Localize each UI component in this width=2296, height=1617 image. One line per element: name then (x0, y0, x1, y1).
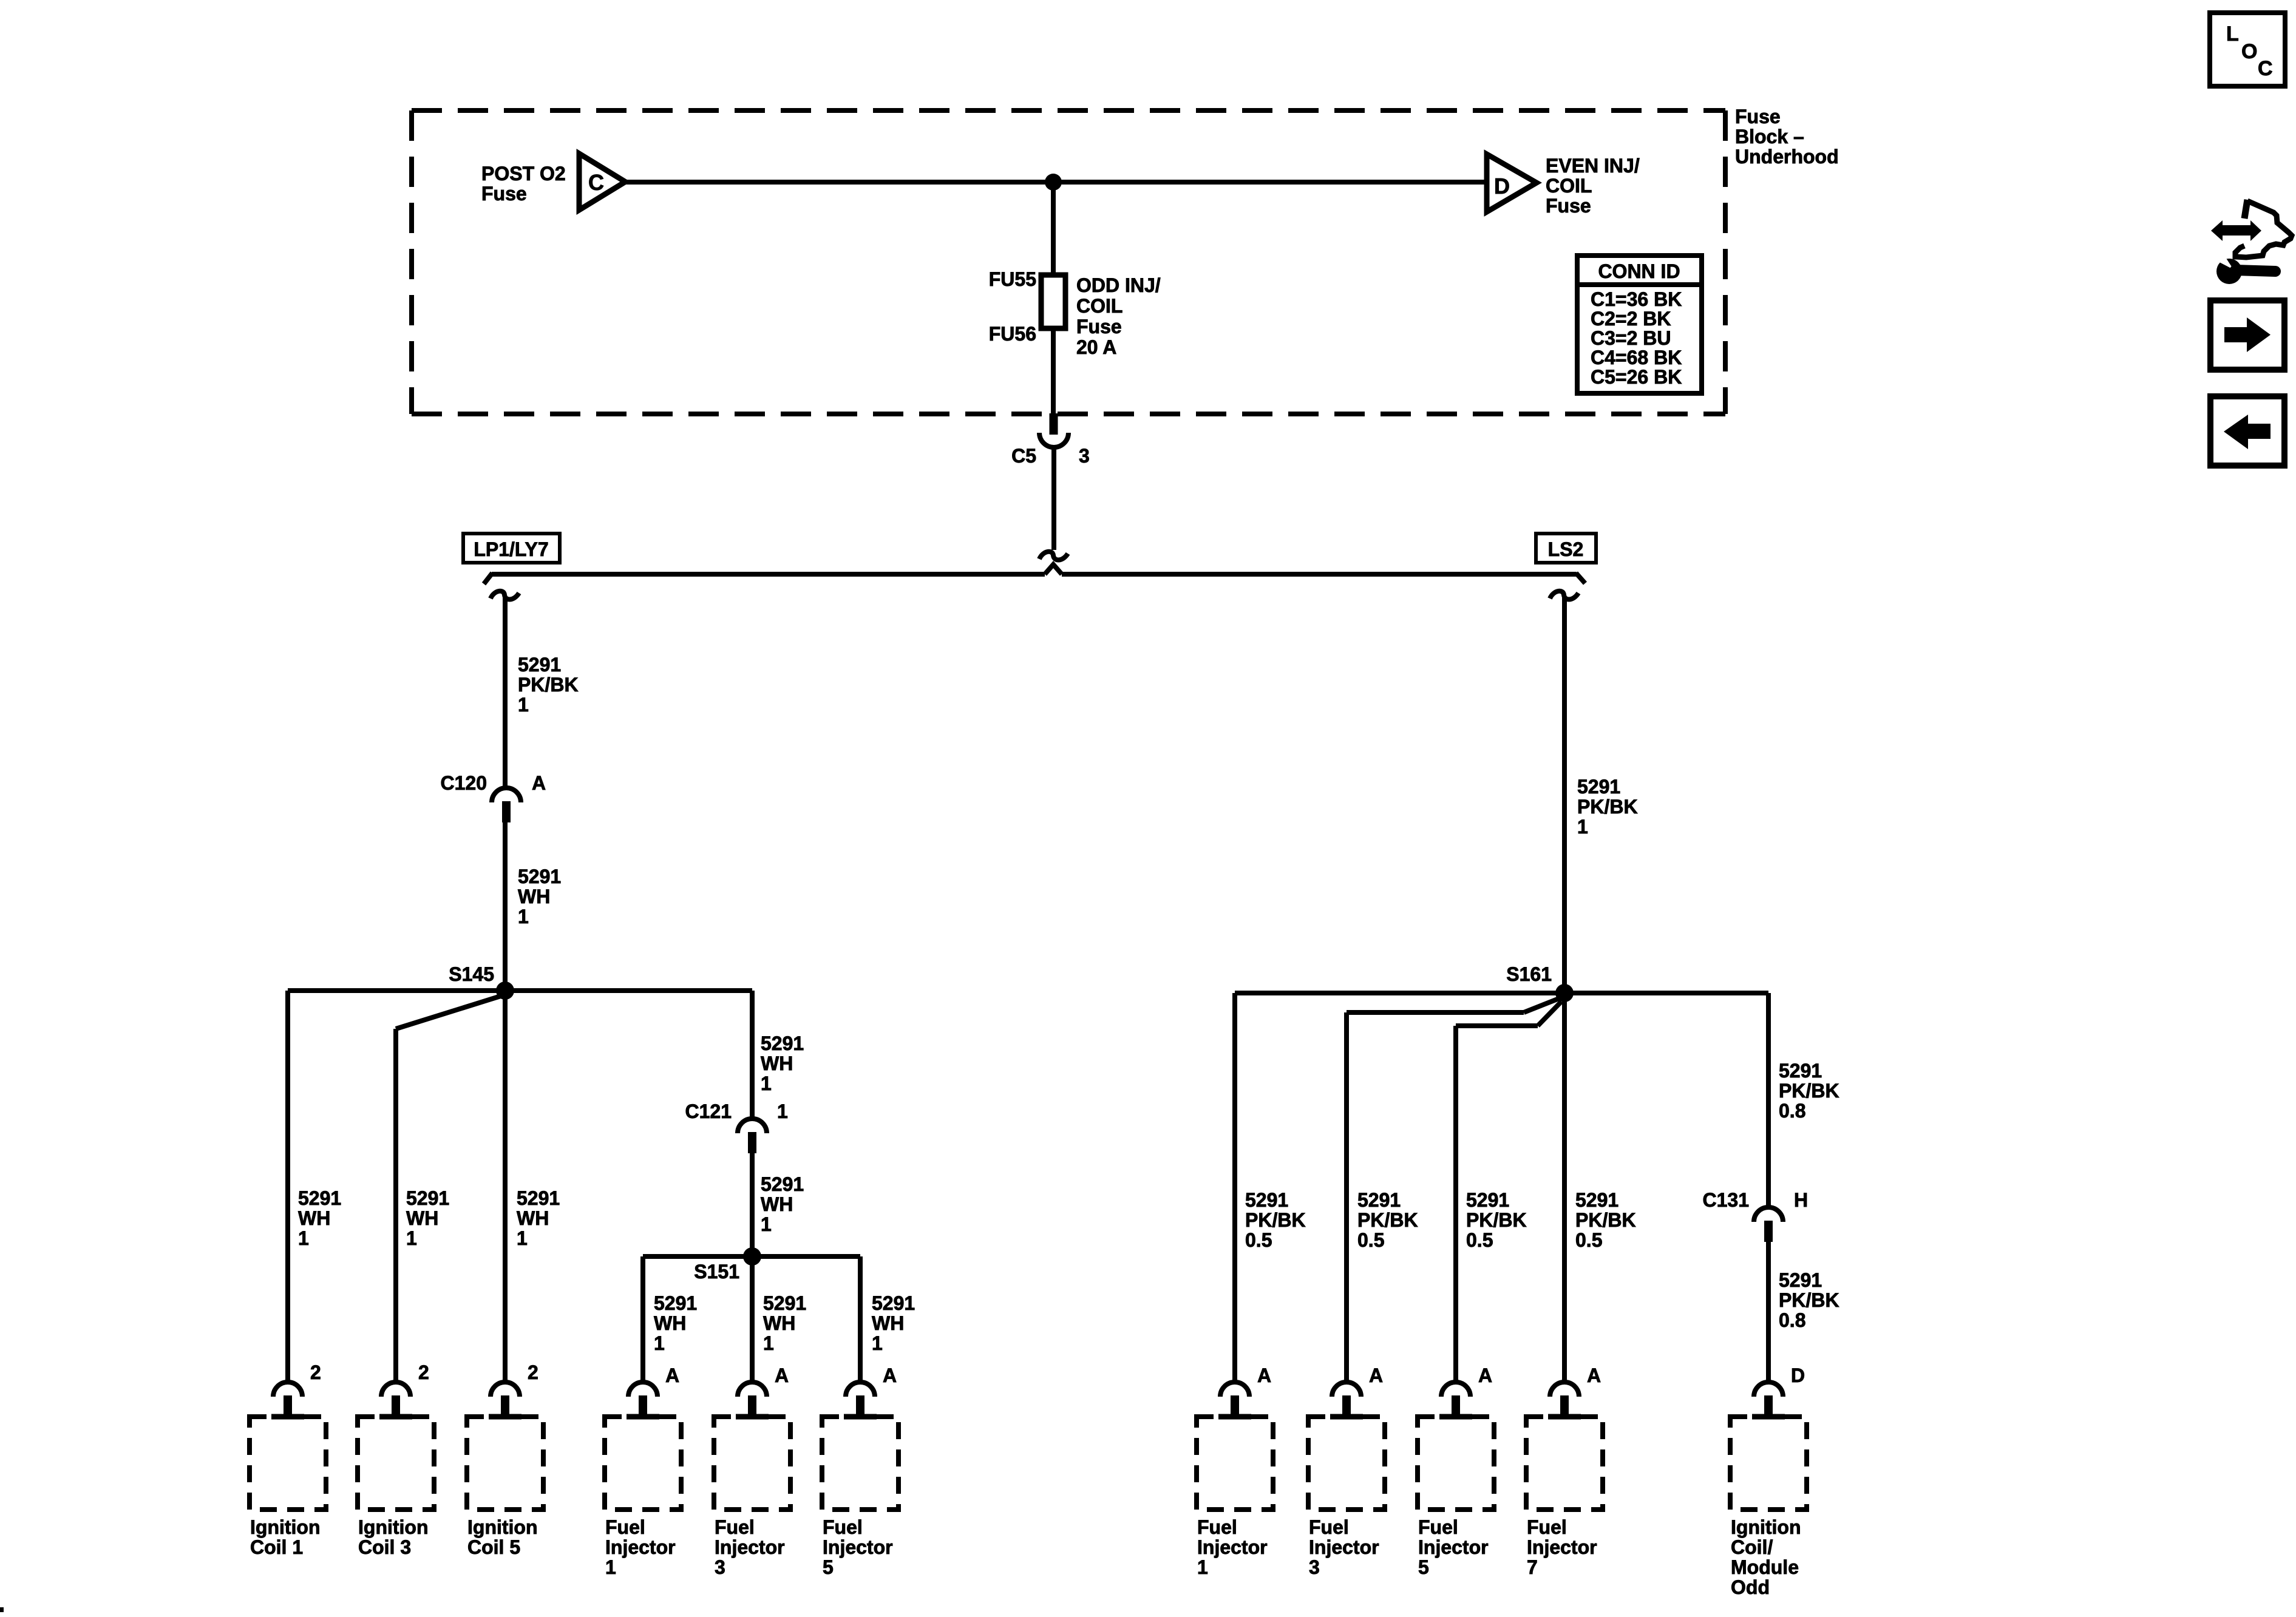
fuse block dashed border (412, 110, 1725, 414)
svg-text:C5: C5 (1011, 445, 1036, 467)
svg-text:C2=2 BK: C2=2 BK (1591, 308, 1671, 330)
svg-text:Module: Module (1731, 1556, 1799, 1578)
svg-text:WH: WH (761, 1053, 793, 1074)
svg-text:5291: 5291 (298, 1187, 341, 1209)
label 5291 PK/BK 0.8 above C131 (1779, 1060, 1839, 1122)
svg-text:5291: 5291 (1779, 1269, 1822, 1291)
svg-text:Fuel: Fuel (1418, 1516, 1458, 1538)
label 5291 PK/BK 0.5 branch 1 (1245, 1189, 1306, 1251)
svg-text:S151: S151 (694, 1261, 739, 1283)
svg-text:Odd: Odd (1731, 1576, 1770, 1598)
label fuel injector 1 left (605, 1516, 676, 1578)
svg-text:WH: WH (872, 1312, 904, 1334)
connector pin 2 at ignition coil 3 (381, 1361, 429, 1416)
svg-text:PK/BK: PK/BK (1466, 1209, 1527, 1231)
svg-text:WH: WH (406, 1207, 438, 1229)
fuel injector 7 right box (1526, 1417, 1603, 1510)
svg-text:PK/BK: PK/BK (1357, 1209, 1418, 1231)
svg-text:Ignition: Ignition (1731, 1516, 1801, 1538)
wire S145 to C121 (750, 991, 755, 1119)
label 5291 WH 1 below C121 (761, 1173, 804, 1235)
LOC box (2210, 13, 2285, 86)
svg-text:O: O (2241, 40, 2257, 63)
svg-text:PK/BK: PK/BK (1577, 796, 1638, 818)
svg-text:COIL: COIL (1076, 295, 1123, 317)
label LS2 (1536, 534, 1596, 563)
svg-text:1: 1 (298, 1227, 309, 1249)
label 5291 WH 1 above C121 (761, 1032, 804, 1094)
svg-text:EVEN INJ/: EVEN INJ/ (1546, 155, 1640, 177)
label 5291 PK/BK 1 (518, 654, 579, 716)
label 5291 PK/BK 1 right (1577, 776, 1638, 838)
label fuel injector 3 left (715, 1516, 785, 1578)
wire S161 to fuel injector 1 (1232, 993, 1237, 1382)
harness bus wire (484, 564, 1585, 584)
svg-text:0.8: 0.8 (1779, 1100, 1805, 1122)
label 5291 WH 1 injector branch 3 (763, 1292, 806, 1354)
triangle D EVEN INJ/COIL Fuse (1487, 154, 1537, 212)
svg-text:1: 1 (777, 1100, 788, 1122)
svg-text:C5=26 BK: C5=26 BK (1591, 366, 1682, 388)
fuel injector 1 right box (1197, 1417, 1273, 1510)
svg-text:Fuse: Fuse (1546, 195, 1591, 217)
label 5291 WH 1 injector branch 5 (872, 1292, 915, 1354)
label ignition coil 1 (250, 1516, 321, 1558)
svg-text:PK/BK: PK/BK (1245, 1209, 1306, 1231)
svg-text:CONN ID: CONN ID (1598, 260, 1680, 282)
svg-text:1: 1 (1197, 1556, 1208, 1578)
svg-text:A: A (1369, 1364, 1383, 1386)
svg-text:5291: 5291 (1466, 1189, 1509, 1211)
svg-text:D: D (1494, 174, 1510, 198)
svg-text:C120: C120 (441, 772, 487, 794)
svg-text:5291: 5291 (518, 866, 561, 887)
wire S151 to fuel injector 5 (858, 1256, 863, 1382)
svg-text:5291: 5291 (406, 1187, 449, 1209)
svg-text:5291: 5291 (518, 654, 561, 676)
wire S161 to C131 (1766, 993, 1771, 1207)
svg-text:PK/BK: PK/BK (1779, 1080, 1839, 1102)
connector pin A at fuel injector 7 right (1550, 1364, 1601, 1416)
svg-text:C: C (2258, 57, 2273, 80)
svg-text:A: A (1478, 1364, 1492, 1386)
label ignition coil 5 (467, 1516, 538, 1558)
svg-text:C1=36 BK: C1=36 BK (1591, 288, 1682, 310)
wire S145 to ignition coil 5 (503, 991, 508, 1382)
svg-text:3: 3 (1079, 445, 1090, 467)
svg-text:0.8: 0.8 (1779, 1309, 1805, 1331)
fuel injector 5 left box (822, 1417, 898, 1510)
svg-text:S161: S161 (1506, 963, 1552, 985)
svg-text:COIL: COIL (1546, 175, 1592, 197)
connector C120 pin A (441, 772, 546, 822)
svg-text:PK/BK: PK/BK (1575, 1209, 1636, 1231)
svg-text:2: 2 (310, 1361, 321, 1383)
label 5291 PK/BK 0.5 branch 5 (1466, 1189, 1527, 1251)
svg-text:D: D (1791, 1364, 1805, 1386)
wire S161 to fuel injector 5 (dogleg) (1456, 1002, 1561, 1382)
svg-text:Coil/: Coil/ (1731, 1536, 1773, 1558)
svg-text:Underhood: Underhood (1735, 146, 1839, 168)
wire C5 to harness bus (1051, 446, 1056, 550)
ignition coil 3 box (358, 1417, 434, 1510)
svg-text:PK/BK: PK/BK (518, 674, 579, 696)
svg-text:Injector: Injector (1418, 1536, 1489, 1558)
svg-text:WH: WH (518, 886, 550, 907)
fuse FU55/FU56 ODD INJ/COIL Fuse 20 A (989, 268, 1065, 345)
svg-text:S145: S145 (449, 963, 494, 985)
splice S145 (449, 963, 514, 1000)
ignition coil/module odd box (1730, 1417, 1807, 1510)
svg-text:1: 1 (654, 1332, 665, 1354)
label 5291 PK/BK 0.5 branch 7 (1575, 1189, 1636, 1251)
wire fuse to C5 (1051, 328, 1056, 414)
svg-text:A: A (532, 772, 546, 794)
label 5291 WH 1 (518, 866, 561, 927)
svg-text:1: 1 (763, 1332, 774, 1354)
label 5291 WH 1 coil branch 1 (298, 1187, 341, 1249)
svg-text:Injector: Injector (1197, 1536, 1268, 1558)
svg-text:POST O2: POST O2 (481, 163, 566, 185)
break squiggle above bus (1039, 552, 1068, 560)
svg-text:WH: WH (517, 1207, 549, 1229)
svg-text:Coil 1: Coil 1 (250, 1536, 303, 1558)
svg-text:Fuel: Fuel (1527, 1516, 1567, 1538)
wire 5291 WH 1 to S145 (503, 822, 508, 991)
svg-text:Fuel: Fuel (823, 1516, 863, 1538)
S161 bus wire (1235, 991, 1768, 995)
svg-text:1: 1 (518, 694, 529, 716)
svg-text:Injector: Injector (823, 1536, 893, 1558)
connector pin A at fuel injector 5 right (1441, 1364, 1492, 1416)
svg-text:A: A (665, 1364, 679, 1386)
wire S151 to fuel injector 3 (750, 1256, 755, 1382)
wire 5291 PK/BK 1 right (1562, 597, 1567, 993)
connector pin 2 at ignition coil 1 (273, 1361, 321, 1416)
svg-text:Fuel: Fuel (605, 1516, 645, 1538)
connector pin 2 at ignition coil 5 (491, 1361, 538, 1416)
svg-text:1: 1 (517, 1227, 528, 1249)
svg-text:5291: 5291 (872, 1292, 915, 1314)
svg-text:C4=68 BK: C4=68 BK (1591, 347, 1682, 368)
svg-text:5291: 5291 (761, 1032, 804, 1054)
svg-text:Fuel: Fuel (1309, 1516, 1349, 1538)
svg-text:A: A (1257, 1364, 1271, 1386)
svg-text:Ignition: Ignition (250, 1516, 321, 1538)
svg-text:2: 2 (418, 1361, 429, 1383)
triangle C POST O2 Fuse (579, 154, 625, 210)
svg-text:LS2: LS2 (1548, 538, 1584, 560)
svg-text:7: 7 (1527, 1556, 1538, 1578)
label fuel injector 5 right (1418, 1516, 1489, 1578)
connector pin D at ignition coil/module odd (1754, 1364, 1805, 1416)
svg-text:5291: 5291 (1245, 1189, 1288, 1211)
label 5291 PK/BK 0.8 below C131 (1779, 1269, 1839, 1331)
wire S161 to fuel injector 3 (dogleg) (1347, 998, 1559, 1382)
fuel injector 5 right box (1418, 1417, 1494, 1510)
svg-text:Ignition: Ignition (467, 1516, 538, 1538)
label fuel injector 3 right (1309, 1516, 1379, 1578)
CONN ID table (1577, 256, 1702, 393)
svg-text:1: 1 (761, 1213, 772, 1235)
svg-text:5: 5 (1418, 1556, 1429, 1578)
wire C121 to S151 (750, 1153, 755, 1256)
svg-text:1: 1 (605, 1556, 616, 1578)
svg-text:H: H (1794, 1189, 1808, 1211)
svg-text:1: 1 (761, 1073, 772, 1094)
ignition coil 1 box (250, 1417, 326, 1510)
svg-text:Injector: Injector (605, 1536, 676, 1558)
svg-text:WH: WH (654, 1312, 686, 1334)
svg-text:3: 3 (1309, 1556, 1320, 1578)
label ignition coil/module odd (1731, 1516, 1801, 1598)
svg-text:5291: 5291 (761, 1173, 804, 1195)
svg-text:5291: 5291 (1575, 1189, 1618, 1211)
svg-text:1: 1 (406, 1227, 417, 1249)
wire S161 to fuel injector 7 (1562, 993, 1567, 1382)
svg-text:20 A: 20 A (1076, 336, 1116, 358)
svg-text:C121: C121 (685, 1100, 732, 1122)
splice S161 (1506, 963, 1574, 1002)
wire C131 to ignition coil module (1766, 1242, 1771, 1382)
svg-text:0.5: 0.5 (1357, 1229, 1384, 1251)
label 5291 WH 1 coil branch 3 (406, 1187, 449, 1249)
svg-text:C131: C131 (1703, 1189, 1750, 1211)
wire S145 to ignition coil 1 (285, 991, 290, 1382)
connector pin A at fuel injector 3 left (738, 1364, 789, 1416)
svg-text:Fuel: Fuel (1197, 1516, 1237, 1538)
svg-text:Block –: Block – (1735, 126, 1804, 147)
svg-text:3: 3 (715, 1556, 725, 1578)
svg-text:2: 2 (528, 1361, 538, 1383)
svg-text:WH: WH (763, 1312, 795, 1334)
svg-text:Fuse: Fuse (1735, 106, 1781, 127)
svg-text:1: 1 (1577, 816, 1588, 838)
wire junction to fuse (1051, 182, 1056, 275)
connector pin A at fuel injector 5 left (846, 1364, 897, 1416)
svg-text:A: A (775, 1364, 789, 1386)
label fuel injector 1 right (1197, 1516, 1268, 1578)
connector pin A at fuel injector 1 right (1220, 1364, 1271, 1416)
connector C131 pin H (1703, 1189, 1809, 1242)
svg-text:0.5: 0.5 (1466, 1229, 1493, 1251)
label 5291 WH 1 injector branch 1 (654, 1292, 697, 1354)
S145 bus wire (288, 988, 752, 993)
nav icon wrench and arrows (2211, 200, 2292, 284)
connector pin A at fuel injector 3 right (1332, 1364, 1383, 1416)
splice S151 (694, 1247, 761, 1283)
label LP1/LY7 (463, 534, 560, 563)
connector pin A at fuel injector 1 left (628, 1364, 679, 1416)
svg-text:C3=2 BU: C3=2 BU (1591, 327, 1671, 349)
svg-text:Ignition: Ignition (358, 1516, 429, 1538)
break squiggle top of right drop (1550, 591, 1578, 600)
stray mark bottom left (0, 1607, 4, 1612)
svg-text:1: 1 (872, 1332, 883, 1354)
label 5291 PK/BK 0.5 branch 3 (1357, 1189, 1418, 1251)
label Fuse Block - Underhood (1735, 106, 1839, 168)
label POST O2 Fuse (481, 163, 566, 205)
svg-text:5291: 5291 (1779, 1060, 1822, 1082)
svg-text:5291: 5291 (654, 1292, 697, 1314)
svg-text:0.5: 0.5 (1245, 1229, 1272, 1251)
wire S151 to fuel injector 1 (640, 1256, 645, 1382)
break squiggle top of left drop (491, 591, 519, 600)
svg-text:Injector: Injector (1309, 1536, 1379, 1558)
svg-text:A: A (1587, 1364, 1601, 1386)
svg-text:Fuel: Fuel (715, 1516, 755, 1538)
label 5291 WH 1 coil branch 5 (517, 1187, 560, 1249)
svg-text:Injector: Injector (1527, 1536, 1597, 1558)
fuel injector 3 left box (714, 1417, 790, 1510)
ignition coil 5 box (467, 1417, 543, 1510)
svg-text:WH: WH (298, 1207, 330, 1229)
wire from triangle C to triangle D (625, 180, 1487, 185)
nav arrow right box (2210, 300, 2284, 370)
svg-text:ODD INJ/: ODD INJ/ (1076, 274, 1161, 296)
fuel injector 1 left box (605, 1417, 681, 1510)
svg-text:0.5: 0.5 (1575, 1229, 1602, 1251)
svg-text:FU55: FU55 (989, 268, 1036, 290)
nav arrow left box (2210, 396, 2284, 466)
svg-text:L: L (2226, 22, 2239, 46)
wire S145 to ignition coil 3 (diagonal) (396, 995, 503, 1382)
svg-text:Fuse: Fuse (481, 183, 527, 205)
connector C121 pin 1 (685, 1100, 788, 1153)
svg-text:5291: 5291 (763, 1292, 806, 1314)
svg-text:5: 5 (823, 1556, 834, 1578)
svg-text:Injector: Injector (715, 1536, 785, 1558)
wire 5291 PK/BK 1 left (503, 597, 508, 788)
label fuel injector 5 left (823, 1516, 893, 1578)
svg-text:C: C (588, 170, 604, 195)
svg-text:A: A (883, 1364, 897, 1386)
svg-text:Coil 3: Coil 3 (358, 1536, 411, 1558)
svg-text:FU56: FU56 (989, 323, 1036, 345)
label fuel injector 7 right (1527, 1516, 1597, 1578)
svg-text:WH: WH (761, 1193, 793, 1215)
svg-text:5291: 5291 (1577, 776, 1620, 798)
svg-text:5291: 5291 (1357, 1189, 1401, 1211)
S151 bus wire (643, 1254, 860, 1259)
svg-text:5291: 5291 (517, 1187, 560, 1209)
svg-text:Fuse: Fuse (1076, 316, 1122, 337)
connector C5 pin 3 (1011, 413, 1090, 467)
fuel injector 3 right box (1308, 1417, 1385, 1510)
svg-text:LP1/LY7: LP1/LY7 (474, 538, 548, 560)
label EVEN INJ/COIL Fuse (1546, 155, 1640, 217)
svg-text:PK/BK: PK/BK (1779, 1289, 1839, 1311)
svg-text:Coil 5: Coil 5 (467, 1536, 520, 1558)
label ODD INJ/COIL Fuse 20 A (1076, 274, 1161, 358)
svg-text:1: 1 (518, 906, 529, 927)
label ignition coil 3 (358, 1516, 429, 1558)
junction dot at fuse tap (1045, 174, 1062, 191)
